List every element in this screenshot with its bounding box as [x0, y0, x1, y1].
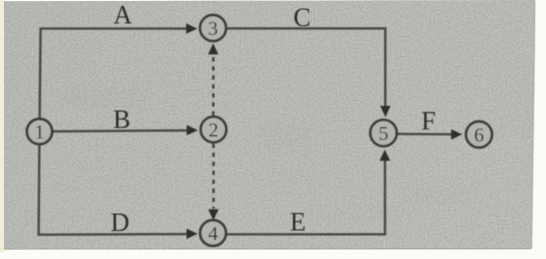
dashed dummy wire 2-3 [212, 54, 214, 116]
svg-text:1: 1 [35, 122, 45, 144]
svg-text:6: 6 [474, 125, 484, 147]
wire 3-5 (activity C path: right then down) [226, 28, 385, 107]
wire 1-4 (activity D path: down from node 1 then right) [39, 145, 188, 235]
svg-text:3: 3 [208, 18, 218, 40]
arrowhead into node 3 bottom (dummy 2-3) [208, 43, 218, 54]
node 3 [200, 15, 226, 41]
faint bleed-through smudge 1 [64, 88, 144, 107]
arrowhead into node 4 (D) [187, 229, 198, 239]
page bottom edge shadow line [4, 248, 531, 249]
wire 5-6 (activity F) [397, 133, 452, 136]
svg-text:5: 5 [379, 123, 389, 145]
svg-text:F: F [421, 107, 435, 136]
wire 4-5 (activity E path: right then up) [226, 160, 385, 234]
page right edge shadow line [531, 1, 535, 249]
arrowhead into node 5 top (C) [380, 106, 390, 117]
node 6 [466, 122, 492, 148]
cream book-edge strip at left [0, 0, 4, 252]
svg-text:C: C [293, 3, 310, 32]
faint bleed-through smudge 3 [404, 184, 472, 204]
svg-text:B: B [113, 105, 130, 134]
svg-text:A: A [113, 1, 132, 30]
svg-text:2: 2 [209, 120, 219, 142]
dashed dummy wire 2-4 [212, 144, 214, 209]
faint bleed-through smudge 2 [258, 122, 316, 154]
wire 1-2 (activity B) [53, 130, 187, 131]
node 5 [370, 120, 396, 146]
node 2 [201, 117, 227, 143]
wire 1-3 (activity A path: up from node 1 then right) [40, 29, 188, 119]
faint bleed-through smudge 4 [308, 204, 392, 224]
arrowhead into node 5 bottom (E) [380, 150, 391, 161]
arrowhead into node 6 (F) [451, 129, 462, 139]
node 1 [27, 119, 52, 144]
arrowhead into node 4 top (dummy 2-4) [208, 209, 218, 220]
arrowhead into node 2 (B) [187, 125, 198, 135]
svg-text:E: E [290, 208, 306, 237]
svg-text:4: 4 [208, 223, 218, 245]
node 4 [200, 220, 226, 246]
faint bleed-through smudge 6 [272, 170, 320, 196]
faint bleed-through smudge 5 [494, 62, 534, 132]
svg-text:D: D [111, 208, 130, 237]
arrowhead into node 3 (A) [186, 23, 197, 33]
